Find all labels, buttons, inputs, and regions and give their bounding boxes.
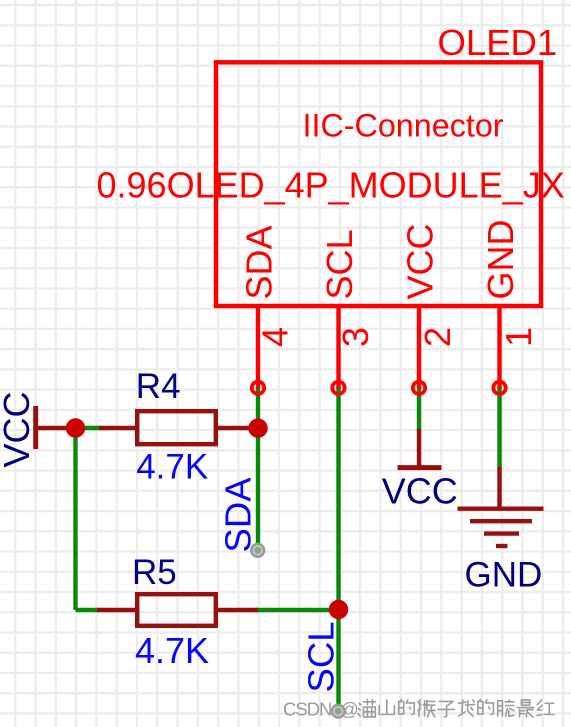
svg-text:0.96OLED_4P_MODULE_JX: 0.96OLED_4P_MODULE_JX bbox=[97, 165, 565, 206]
svg-text:SDA: SDA bbox=[239, 225, 280, 299]
svg-text:GND: GND bbox=[465, 556, 543, 595]
svg-text:SCL: SCL bbox=[319, 229, 360, 299]
svg-text:OLED1: OLED1 bbox=[438, 22, 558, 63]
svg-text:SDA: SDA bbox=[218, 477, 259, 553]
svg-text:1: 1 bbox=[498, 327, 539, 347]
svg-text:VCC: VCC bbox=[0, 391, 37, 467]
svg-text:4.7K: 4.7K bbox=[135, 630, 209, 671]
svg-text:SCL: SCL bbox=[301, 621, 342, 692]
svg-text:2: 2 bbox=[417, 327, 458, 347]
svg-text:R5: R5 bbox=[132, 553, 177, 592]
svg-text:VCC: VCC bbox=[400, 223, 441, 299]
svg-text:VCC: VCC bbox=[382, 471, 458, 512]
svg-text:IIC-Connector: IIC-Connector bbox=[303, 108, 504, 144]
svg-text:4: 4 bbox=[255, 327, 296, 347]
svg-text:3: 3 bbox=[335, 327, 376, 347]
svg-text:R4: R4 bbox=[136, 367, 181, 406]
svg-text:CSDN: CSDN bbox=[283, 699, 331, 720]
svg-text:GND: GND bbox=[480, 220, 521, 300]
svg-text:4.7K: 4.7K bbox=[136, 448, 208, 487]
